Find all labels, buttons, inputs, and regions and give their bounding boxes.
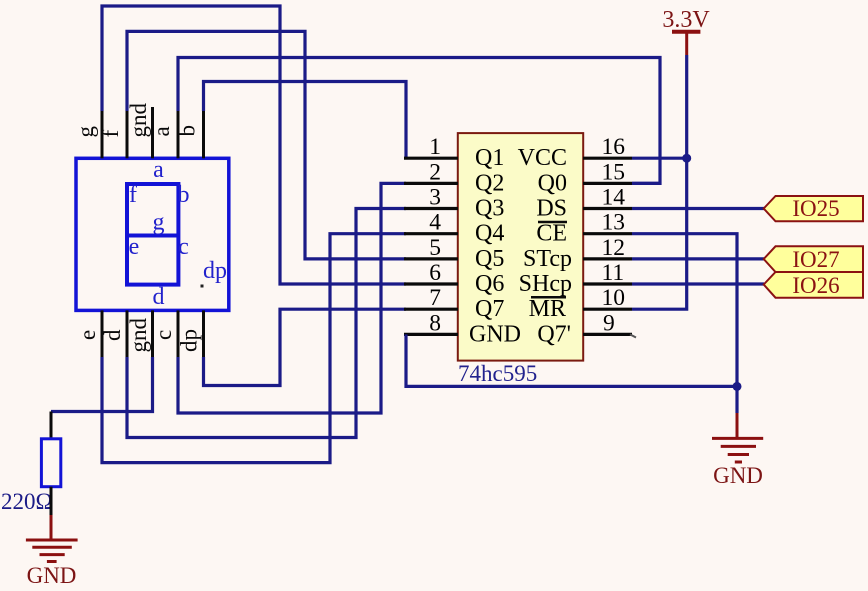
svg-text:14: 14 [602, 185, 626, 211]
wire: pin 12 STcp to IO27 [632, 257, 764, 260]
wire net VCC: 3.3V rail down to pin 10 (MR) [632, 55, 687, 309]
svg-text:VCC: VCC [518, 145, 567, 171]
svg-text:dp: dp [203, 258, 227, 284]
wire net GND: pin 8 to ground rail [406, 334, 737, 386]
svg-text:Q1: Q1 [475, 145, 504, 171]
junction at VCC rail [682, 154, 691, 163]
U1 right pin names [518, 145, 572, 347]
wire net d: display pin d to U1 pin 3 [127, 209, 406, 438]
svg-text:4: 4 [429, 210, 441, 236]
ground GND (left) [26, 515, 78, 562]
display bottom pin stubs [102, 310, 204, 358]
svg-text:f: f [129, 182, 137, 208]
wire net g: display pin g to U1 pin 6 [102, 6, 406, 284]
wire net gnd: display bottom gnd pin to resistor R1 [51, 357, 153, 412]
svg-text:Q7': Q7' [537, 321, 571, 347]
svg-text:d: d [153, 284, 165, 310]
svg-text:SHcp: SHcp [519, 271, 572, 297]
7-segment display inner figure-8 [127, 184, 178, 285]
svg-text:e: e [129, 234, 140, 260]
wire: pin 15 Q0 up-left (net a) [632, 182, 660, 185]
wire: resistor R1 bottom lead [50, 487, 53, 515]
overline for MR (pin 10) [531, 296, 566, 299]
overline for CE (pin 13) [538, 221, 567, 224]
port IO26 [764, 272, 863, 298]
svg-text:b: b [178, 182, 190, 208]
wire: pin 11 SHcp to IO26 [632, 282, 764, 285]
svg-text:2: 2 [429, 159, 441, 185]
svg-text:CE: CE [536, 221, 567, 247]
svg-text:f: f [98, 130, 123, 138]
svg-text:IO25: IO25 [792, 196, 839, 221]
svg-text:dp: dp [177, 329, 202, 352]
wire: pin 13 CE down to ground net [632, 234, 737, 387]
svg-text:e: e [75, 330, 100, 340]
svg-text:Q3: Q3 [475, 196, 504, 222]
display top pin labels (rotated) [73, 103, 200, 138]
display segment labels [129, 157, 227, 310]
U1 left pin numbers 1-8 [429, 134, 441, 336]
display bottom pin labels (rotated) [75, 318, 202, 353]
svg-text:d: d [100, 329, 125, 341]
port IO25 [764, 196, 863, 221]
svg-text:GND: GND [469, 321, 521, 347]
svg-text:8: 8 [429, 310, 441, 336]
svg-text:12: 12 [602, 235, 626, 261]
decimal point dot [201, 285, 204, 288]
wire: pin 14 DS to IO25 [632, 207, 764, 210]
svg-text:MR: MR [529, 296, 566, 322]
svg-text:9: 9 [603, 310, 615, 336]
svg-text:GND: GND [713, 463, 763, 488]
U1 left pin names Q1-Q7, GND [469, 145, 521, 347]
svg-text:DS: DS [536, 196, 567, 222]
U1 pin 9 no-connect tick [630, 334, 636, 337]
display top pin stubs [102, 107, 204, 158]
svg-text:5: 5 [429, 235, 441, 261]
svg-text:IO26: IO26 [792, 273, 839, 298]
svg-text:b: b [175, 125, 200, 137]
svg-text:16: 16 [602, 134, 626, 160]
svg-text:Q2: Q2 [475, 170, 504, 196]
svg-text:10: 10 [602, 285, 626, 311]
svg-text:gnd: gnd [126, 318, 151, 353]
svg-text:3.3V: 3.3V [662, 7, 710, 33]
wire: ground stub below junction [735, 386, 738, 413]
power 3.3V symbol [662, 7, 710, 55]
svg-text:c: c [178, 234, 189, 260]
U1 right pin numbers 16-9 [602, 134, 626, 336]
svg-text:11: 11 [602, 260, 625, 286]
svg-text:Q5: Q5 [475, 246, 504, 272]
IC U1 74hc595 body [458, 133, 583, 361]
svg-text:Q6: Q6 [475, 271, 504, 297]
svg-text:a: a [149, 126, 174, 136]
svg-text:3: 3 [429, 185, 441, 211]
svg-text:6: 6 [429, 260, 441, 286]
svg-text:Q0: Q0 [538, 170, 567, 196]
junction at ground rail [733, 382, 742, 391]
7-segment display DS1 outer box [76, 158, 229, 310]
U1 left pin stubs (1-8) [404, 158, 458, 334]
wire: resistor R1 top lead [50, 412, 53, 439]
svg-text:74hc595: 74hc595 [458, 361, 537, 386]
wire net e: display pin e to U1 pin 4 [102, 234, 406, 463]
svg-text:g: g [153, 210, 165, 236]
svg-text:STcp: STcp [523, 246, 572, 272]
wire net c: display pin c to U1 pin 2 [178, 183, 406, 413]
svg-text:13: 13 [602, 210, 626, 236]
svg-text:1: 1 [429, 134, 441, 160]
svg-text:IO27: IO27 [792, 247, 839, 272]
wire net f: display pin f to U1 pin 5 [127, 31, 406, 259]
port IO27 [764, 246, 863, 272]
svg-text:a: a [153, 157, 164, 183]
wire net a: display pin a to U1 pin 15 [178, 58, 660, 184]
svg-text:Q7: Q7 [475, 296, 504, 322]
svg-text:gnd: gnd [126, 103, 151, 138]
svg-text:c: c [151, 330, 176, 340]
svg-text:7: 7 [429, 285, 441, 311]
svg-text:Q4: Q4 [475, 221, 504, 247]
svg-text:15: 15 [602, 159, 626, 185]
svg-text:220Ω: 220Ω [1, 489, 53, 514]
wire net b: display pin b to U1 pin 1 [204, 82, 407, 159]
resistor R1 220 ohm [41, 439, 60, 487]
ground GND (right) [712, 413, 763, 462]
svg-text:GND: GND [27, 563, 77, 588]
svg-text:g: g [73, 126, 98, 138]
wire net dp: display pin dp to U1 pin 7 [204, 309, 407, 385]
U1 right pin stubs (16-9) [583, 158, 632, 334]
wire: pin 16 VCC to rail [632, 157, 687, 160]
